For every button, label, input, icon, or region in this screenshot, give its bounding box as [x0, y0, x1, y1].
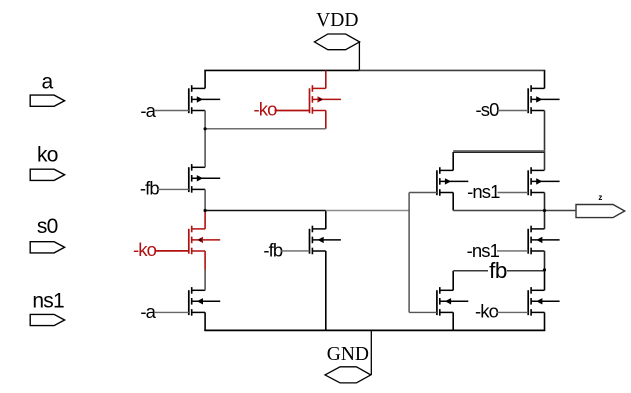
transistor M5 (-ko, red, row3 left): [189, 211, 220, 270]
svg-text:-ko: -ko: [133, 239, 157, 260]
junction n2: [204, 209, 207, 212]
wire M12 gate wire: [497, 311, 529, 313]
wire VDD stub: [358, 42, 360, 71]
wire M1 gate wire: [154, 110, 189, 112]
svg-text:ns1: ns1: [32, 290, 64, 313]
wire M2 gate wire (red): [275, 110, 310, 112]
svg-text:-ko: -ko: [254, 99, 278, 120]
junction fb: [543, 268, 546, 271]
wire net z horizontal: [453, 210, 576, 212]
wire net n3 upper line (M4.s-M7.d): [453, 150, 544, 152]
svg-text:-ko: -ko: [475, 300, 499, 321]
wire net n3 lower line (M4.s-M7.d): [453, 151, 544, 153]
transistor M11 (-a, bottom left): [189, 287, 220, 330]
wire M4 gate wire: [498, 110, 529, 112]
transistor M9 (-ns1, row3 right): [528, 226, 559, 271]
transistor M7 (row2 mid-right): [437, 152, 468, 211]
transistor M12 (-ko, row4 right): [528, 271, 559, 331]
wire gate bus vertical (M7/M10 gates): [408, 193, 410, 313]
svg-text:-s0: -s0: [476, 99, 500, 120]
svg-text:z: z: [598, 193, 602, 202]
wire net fb right segment: [507, 270, 545, 272]
wire GND rail: [204, 329, 545, 331]
svg-text:ko: ko: [37, 143, 58, 166]
junction z1: [543, 209, 546, 212]
transistor M3 (-fb, row2 left): [189, 129, 220, 211]
transistor M1 (-a, top left): [189, 70, 220, 128]
wire VDD rail left: [204, 69, 359, 71]
svg-text:s0: s0: [37, 215, 58, 238]
svg-text:-fb: -fb: [140, 178, 160, 199]
wire net n2 right segment (to gate column): [326, 210, 409, 212]
svg-text:fb: fb: [489, 258, 507, 283]
GND supply symbol: [325, 367, 371, 383]
svg-text:-ns1: -ns1: [467, 181, 500, 202]
svg-text:a: a: [42, 71, 54, 94]
wire M7 gate wire: [409, 192, 437, 194]
wire M5.s-M11.d vertical: [204, 270, 206, 291]
transistor M8 (-ns1, row2 right): [528, 167, 559, 229]
wire M11 gate wire: [154, 311, 189, 313]
wire M6 gate wire: [281, 250, 310, 252]
VDD supply symbol: [314, 34, 359, 50]
wire net n2 left segment (M3.s-M5.d to M6.d): [205, 210, 326, 212]
junction n1: [204, 127, 207, 130]
svg-text:VDD: VDD: [316, 10, 358, 31]
wire GND stub: [370, 330, 372, 375]
wire net n1 horizontal (M1.s-M2.s): [205, 128, 326, 130]
svg-text:-fb: -fb: [263, 240, 283, 261]
wire M3 gate wire: [158, 188, 189, 190]
transistor M2 (-ko, red, top middle): [310, 70, 341, 128]
transistor M6 (-fb, row3 middle): [310, 211, 341, 331]
wire M10 gate wire: [409, 311, 437, 313]
transistor M10 (row4 mid-right): [437, 271, 468, 331]
wire M5 gate wire (red): [155, 250, 189, 252]
wire VDD rail right: [359, 69, 545, 71]
wire net fb left segment: [453, 270, 488, 272]
wire M9 gate wire: [497, 250, 528, 252]
transistor M4 (-s0, top right): [528, 70, 559, 170]
wire M8 gate wire: [498, 192, 529, 194]
svg-text:GND: GND: [327, 344, 369, 365]
